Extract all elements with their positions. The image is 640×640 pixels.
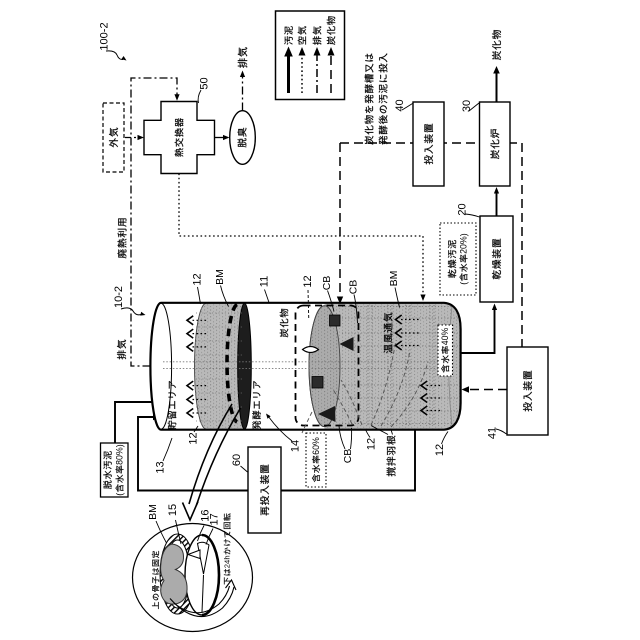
- svg-text:100-2: 100-2: [99, 22, 111, 50]
- svg-text:12: 12: [366, 438, 378, 450]
- svg-text:12: 12: [434, 444, 446, 456]
- svg-text:(: (: [459, 282, 469, 285]
- svg-text:12: 12: [188, 432, 200, 444]
- svg-text:13: 13: [155, 461, 167, 473]
- svg-text:15: 15: [167, 504, 179, 516]
- svg-text:60: 60: [231, 454, 243, 466]
- svg-text:24h: 24h: [223, 555, 232, 568]
- svg-text:CB: CB: [321, 276, 333, 291]
- svg-text:30: 30: [461, 100, 473, 112]
- svg-text:BM: BM: [388, 271, 400, 287]
- svg-text:20%): 20%): [459, 233, 469, 254]
- svg-text:12: 12: [192, 273, 204, 285]
- svg-text:12: 12: [302, 275, 314, 287]
- svg-text:60%: 60%: [311, 437, 321, 455]
- svg-text:BM: BM: [147, 504, 159, 520]
- svg-text:10-2: 10-2: [113, 286, 125, 308]
- svg-text:11: 11: [259, 276, 271, 287]
- svg-text:CB: CB: [348, 280, 360, 295]
- svg-text:40: 40: [394, 99, 406, 111]
- svg-text:CB: CB: [342, 449, 354, 464]
- svg-text:14: 14: [290, 440, 302, 452]
- svg-text:50: 50: [199, 77, 211, 89]
- svg-text:BM: BM: [214, 269, 226, 285]
- svg-text:17: 17: [208, 513, 220, 525]
- svg-text:(: (: [115, 493, 125, 496]
- svg-text:40%: 40%: [440, 328, 450, 346]
- svg-text:80%): 80%): [115, 444, 125, 465]
